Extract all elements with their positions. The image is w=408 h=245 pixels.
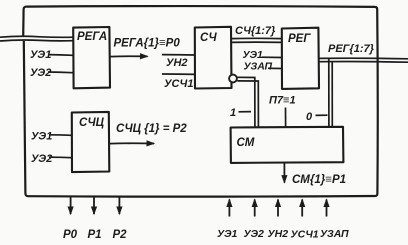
label UE1 (REG input) xyxy=(243,49,282,61)
svg-text:РЕГ: РЕГ xyxy=(288,33,311,45)
label 1 (SM left input) xyxy=(230,107,251,119)
wire dash 1 xyxy=(239,111,252,113)
wire input UN2 arrow up xyxy=(277,200,279,217)
wire REGA output arrow xyxy=(110,55,148,57)
wire output P1 arrow down xyxy=(93,197,95,215)
wire UZAP to REG xyxy=(268,67,282,69)
wire input bus (double line into REGA) xyxy=(0,36,73,41)
svg-text:УЭ2: УЭ2 xyxy=(244,228,265,240)
svg-text:РЕГА: РЕГА xyxy=(77,31,107,43)
wire output P2 arrow down xyxy=(118,197,120,215)
wire output P0 arrow down xyxy=(70,197,72,215)
outer border frame (decorative) xyxy=(23,6,378,197)
wire UE1 to REG xyxy=(262,56,282,58)
counter SCH xyxy=(195,27,232,89)
label UE2 (REGA input) xyxy=(30,67,73,79)
register REG xyxy=(282,28,319,89)
svg-text:СМ: СМ xyxy=(237,137,255,149)
label UN2 (SCH input) xyxy=(162,55,195,69)
wire SCHC output arrow xyxy=(109,142,154,144)
counter SCHC xyxy=(72,112,110,172)
label 0 (SM right input) xyxy=(306,111,328,123)
svg-text:УСЧ1: УСЧ1 xyxy=(291,229,319,241)
svg-text:Р0: Р0 xyxy=(63,229,78,241)
svg-text:П7≡1: П7≡1 xyxy=(269,95,296,107)
wire UE2 to SCHC xyxy=(49,156,72,159)
label USCH1 (SCH input) xyxy=(162,74,195,90)
svg-text:СЧ: СЧ xyxy=(200,32,217,44)
wire dash 0 xyxy=(316,114,328,116)
svg-text:0: 0 xyxy=(306,111,313,123)
wire branch REG bus down to SM input 0 (double line) xyxy=(329,59,333,128)
svg-text:УЭ1: УЭ1 xyxy=(31,131,52,143)
wire USCH1 to SCH xyxy=(162,73,195,75)
svg-text:СЧЦ: СЧЦ xyxy=(79,117,105,129)
svg-text:СМ{1}≡Р1: СМ{1}≡Р1 xyxy=(292,174,346,186)
svg-text:УЭ2: УЭ2 xyxy=(30,67,51,79)
wire UE1 to SCHC xyxy=(49,134,72,137)
label UE1 (REGA input) xyxy=(30,49,73,61)
wire UN2 to SCH xyxy=(162,54,195,56)
svg-text:1: 1 xyxy=(230,107,236,119)
svg-text:Р1: Р1 xyxy=(88,229,102,241)
svg-text:УН2: УН2 xyxy=(166,57,188,69)
svg-text:СЧ{1:7}: СЧ{1:7} xyxy=(235,25,276,37)
svg-text:УЭ1: УЭ1 xyxy=(243,49,264,61)
svg-text:УН2: УН2 xyxy=(268,228,289,240)
wire SM output arrow down xyxy=(283,163,285,183)
wire input UZAP arrow up xyxy=(326,200,328,217)
wire UE1 to REGA xyxy=(48,54,73,57)
svg-text:РЕГ{1:7}: РЕГ{1:7} xyxy=(328,43,375,55)
label UZAP (REG input) xyxy=(244,61,282,73)
svg-text:Р2: Р2 xyxy=(113,229,128,241)
svg-text:УЗАП: УЗАП xyxy=(244,61,273,73)
label P7=1 xyxy=(269,95,296,128)
register REGA xyxy=(73,27,110,88)
svg-text:УСЧ1: УСЧ1 xyxy=(164,78,193,90)
wire bus SCH to REG (double line) xyxy=(231,38,282,42)
wire UE2 to REGA xyxy=(48,71,73,74)
svg-text:УЭ2: УЭ2 xyxy=(31,153,52,165)
svg-text:УЗАП: УЗАП xyxy=(320,228,349,240)
wire REG output bus (double line to right edge) xyxy=(319,58,408,62)
label UE1 (SCHC input) xyxy=(31,131,72,143)
wire P7 to SM xyxy=(285,108,287,128)
svg-text:СЧЦ {1} = Р2: СЧЦ {1} = Р2 xyxy=(116,123,187,135)
adder SM xyxy=(231,127,344,163)
svg-text:РЕГА{1}≡Р0: РЕГА{1}≡Р0 xyxy=(114,38,181,50)
wire input UE2 arrow up xyxy=(254,200,256,217)
inverter bubble on SCH output xyxy=(229,75,237,83)
wire bubble to SM input 1 (double line, right then down) xyxy=(237,77,258,127)
label UE2 (SCHC input) xyxy=(31,153,72,165)
wire input UE1 arrow up xyxy=(228,200,230,217)
svg-text:УЭ1: УЭ1 xyxy=(217,228,238,240)
wire input USCH1 arrow up xyxy=(301,200,303,217)
